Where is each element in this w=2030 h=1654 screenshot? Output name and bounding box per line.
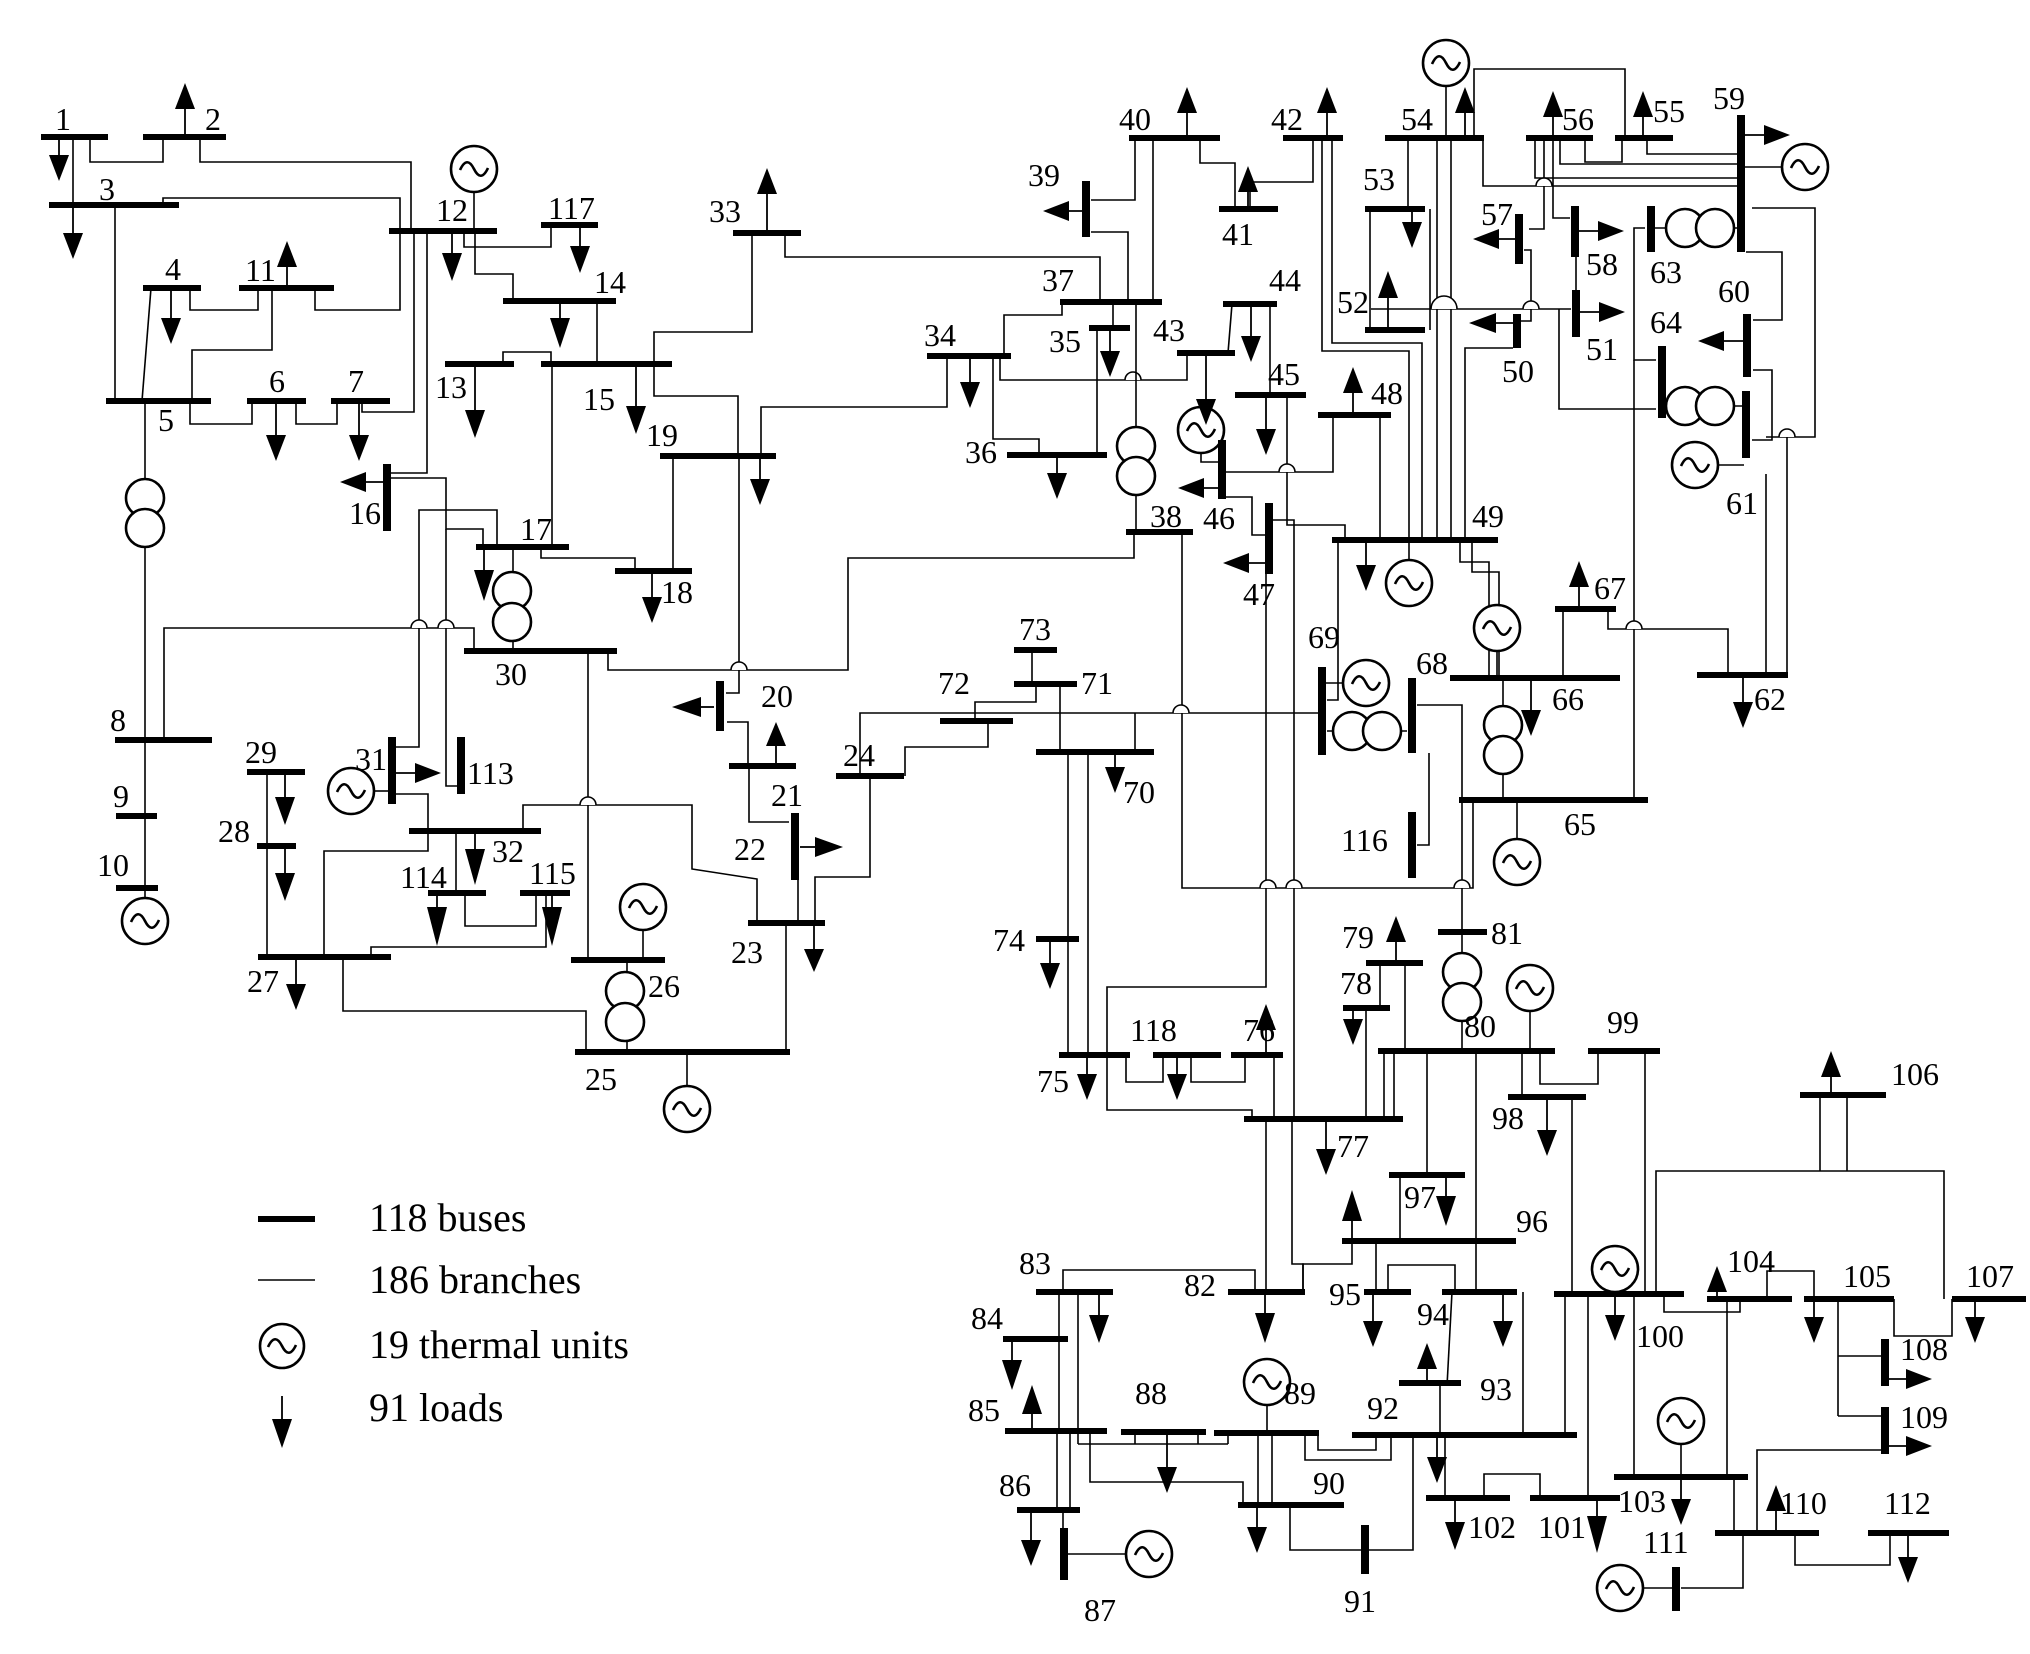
load at bus 117 bbox=[570, 225, 590, 273]
load at bus 45 bbox=[1256, 395, 1276, 455]
svg-text:77: 77 bbox=[1337, 1128, 1369, 1164]
bus 8 bbox=[115, 737, 212, 743]
wire 7-12 bbox=[362, 232, 414, 412]
wire 27-115 bbox=[371, 893, 546, 957]
bus 13 bbox=[445, 361, 514, 367]
wire 59-61 bbox=[1752, 208, 1815, 437]
bus 36 bbox=[1007, 452, 1107, 458]
bus 111 bbox=[1672, 1567, 1680, 1611]
bus 22 bbox=[791, 813, 799, 880]
bus 47 bbox=[1265, 503, 1273, 574]
load at bus 35 bbox=[1100, 328, 1120, 377]
wire hop at 739,670 bbox=[731, 662, 747, 670]
transformer 5-8 bbox=[126, 401, 164, 740]
load at bus 84 bbox=[1002, 1339, 1022, 1390]
svg-text:100: 100 bbox=[1636, 1318, 1684, 1354]
wire hop at 1634,629 bbox=[1626, 621, 1642, 629]
svg-text:39: 39 bbox=[1028, 157, 1060, 193]
bus 11 bbox=[239, 285, 334, 291]
wire 49-54a bbox=[1436, 141, 1438, 540]
load at bus 36 bbox=[1047, 455, 1067, 499]
load at bus 93 bbox=[1417, 1343, 1437, 1386]
svg-text:50: 50 bbox=[1502, 353, 1534, 389]
bus 57 bbox=[1515, 214, 1523, 264]
load at bus 67 bbox=[1569, 561, 1589, 609]
bus 60 bbox=[1743, 314, 1751, 377]
load at bus 107 bbox=[1965, 1299, 1985, 1343]
svg-text:80: 80 bbox=[1464, 1008, 1496, 1044]
load at bus 6 bbox=[266, 401, 286, 461]
wire hop at 1444,309 bbox=[1431, 296, 1457, 309]
wire 78-79 bbox=[1379, 963, 1381, 1008]
wire 49-54b bbox=[1450, 141, 1452, 540]
wire 17-18 bbox=[541, 547, 635, 571]
wire 82-83 bbox=[1063, 1270, 1255, 1292]
wire 70t bbox=[1134, 713, 1136, 752]
bus 43 bbox=[1177, 350, 1235, 356]
bus 74 bbox=[1036, 936, 1079, 942]
wire 5-6 bbox=[190, 401, 252, 424]
wire 80-97 bbox=[1426, 1051, 1428, 1175]
load at bus 66 bbox=[1521, 678, 1541, 736]
svg-text:106: 106 bbox=[1891, 1056, 1939, 1092]
wire 105-107 bbox=[1894, 1299, 1952, 1336]
bus 17 bbox=[476, 544, 569, 550]
svg-text:91 loads: 91 loads bbox=[369, 1385, 503, 1430]
svg-text:114: 114 bbox=[400, 859, 447, 895]
generator at bus 80 bbox=[1507, 965, 1553, 1051]
bus 96 bbox=[1342, 1238, 1516, 1244]
generator at bus 31 bbox=[328, 768, 389, 814]
load at bus 59 bbox=[1741, 125, 1790, 145]
wire 85-88-89 bbox=[1078, 1443, 1228, 1445]
wire 100-106 bbox=[1656, 1171, 1944, 1299]
wire 19-20 bbox=[726, 456, 739, 693]
svg-text:6: 6 bbox=[269, 363, 285, 399]
wire 15-17 bbox=[551, 364, 553, 547]
svg-text:19 thermal units: 19 thermal units bbox=[369, 1322, 629, 1367]
load at bus 14 bbox=[550, 301, 570, 348]
wire 12-14 bbox=[475, 232, 513, 301]
load at bus 103 bbox=[1671, 1477, 1691, 1525]
wire 89-92a bbox=[1305, 1433, 1391, 1460]
svg-text:7: 7 bbox=[348, 363, 364, 399]
bus 98 bbox=[1508, 1094, 1586, 1100]
wire 20-21 bbox=[727, 722, 748, 766]
transformer 65-66 bbox=[1484, 678, 1522, 800]
svg-text:54: 54 bbox=[1401, 101, 1433, 137]
svg-text:70: 70 bbox=[1123, 774, 1155, 810]
svg-text:81: 81 bbox=[1491, 915, 1523, 951]
wire 51-52 bbox=[1371, 308, 1571, 310]
svg-text:107: 107 bbox=[1966, 1258, 2014, 1294]
svg-text:116: 116 bbox=[1341, 822, 1388, 858]
wire 108a bbox=[1838, 1355, 1885, 1357]
wire 85-86a bbox=[1056, 1431, 1058, 1510]
wire 101-102 bbox=[1484, 1474, 1540, 1498]
load at bus 40 bbox=[1177, 87, 1197, 138]
wire 17-113 bbox=[446, 529, 458, 786]
wire 43-44 bbox=[1228, 304, 1232, 353]
svg-text:97: 97 bbox=[1404, 1179, 1436, 1215]
svg-text:29: 29 bbox=[245, 734, 277, 770]
legend generator symbol bbox=[260, 1324, 304, 1368]
load at bus 88 bbox=[1157, 1432, 1177, 1493]
wire 49-66a bbox=[1460, 540, 1489, 678]
bus 117 bbox=[541, 222, 598, 228]
wire 76-77 bbox=[1273, 1055, 1275, 1119]
load at bus 118 bbox=[1167, 1055, 1187, 1100]
bus 23 bbox=[748, 920, 825, 926]
bus 4 bbox=[143, 285, 201, 291]
svg-text:49: 49 bbox=[1472, 498, 1504, 534]
svg-text:59: 59 bbox=[1713, 80, 1745, 116]
bus 89 bbox=[1214, 1430, 1319, 1436]
svg-text:105: 105 bbox=[1843, 1258, 1891, 1294]
bus 24 bbox=[836, 773, 904, 779]
wire 98-100 bbox=[1571, 1097, 1573, 1294]
legend load symbol bbox=[272, 1396, 292, 1448]
legend branch symbol bbox=[258, 1279, 315, 1281]
bus 80 bbox=[1378, 1048, 1555, 1054]
svg-text:18: 18 bbox=[661, 574, 693, 610]
svg-text:65: 65 bbox=[1564, 806, 1596, 842]
wire 4-5 bbox=[142, 288, 151, 401]
wire 96-97 bbox=[1399, 1175, 1401, 1241]
wire 15-19 bbox=[654, 362, 738, 456]
generator at bus 12 bbox=[451, 146, 497, 231]
load at bus 27 bbox=[286, 957, 306, 1010]
wire 52-53a bbox=[1429, 209, 1431, 330]
svg-text:98: 98 bbox=[1492, 1100, 1524, 1136]
wire 109-110 bbox=[1757, 1450, 1885, 1533]
wire 94-96 bbox=[1475, 1241, 1477, 1292]
transformer 17-30 bbox=[493, 547, 531, 649]
wire hop at 1544,186 bbox=[1536, 178, 1552, 186]
svg-text:25: 25 bbox=[585, 1061, 617, 1097]
wire 49-50 bbox=[1465, 348, 1513, 540]
load at bus 96 bbox=[1342, 1190, 1362, 1241]
load at bus 90 bbox=[1247, 1505, 1267, 1553]
wire 89-92b bbox=[1318, 1433, 1376, 1450]
load at bus 33 bbox=[757, 168, 777, 233]
load at bus 101 bbox=[1587, 1498, 1607, 1553]
load at bus 20 bbox=[672, 697, 714, 717]
svg-text:79: 79 bbox=[1342, 919, 1374, 955]
bus 35 bbox=[1089, 325, 1130, 331]
load at bus 55 bbox=[1633, 91, 1653, 138]
wire 30-38 bbox=[608, 532, 1134, 670]
svg-text:118: 118 bbox=[1130, 1012, 1177, 1048]
svg-text:96: 96 bbox=[1516, 1203, 1548, 1239]
bus 38 bbox=[1126, 529, 1193, 535]
svg-text:117: 117 bbox=[548, 190, 595, 226]
svg-text:118 buses: 118 buses bbox=[369, 1195, 526, 1240]
svg-text:112: 112 bbox=[1884, 1485, 1931, 1521]
svg-text:68: 68 bbox=[1416, 645, 1448, 681]
svg-text:4: 4 bbox=[165, 251, 181, 287]
svg-text:30: 30 bbox=[495, 656, 527, 692]
load at bus 42 bbox=[1317, 87, 1337, 138]
wire 35-36 bbox=[1096, 328, 1098, 455]
load at bus 94 bbox=[1493, 1292, 1513, 1347]
wire 55-56 bbox=[1585, 141, 1622, 162]
load at bus 104 bbox=[1707, 1266, 1727, 1299]
svg-text:103: 103 bbox=[1618, 1483, 1666, 1519]
load at bus 102 bbox=[1445, 1498, 1465, 1550]
wire 17-31 bbox=[396, 510, 497, 747]
wire 46-48 bbox=[1226, 415, 1333, 472]
wire 23-24 bbox=[815, 776, 870, 923]
wire 42-49a bbox=[1322, 141, 1409, 540]
wire 110-112 bbox=[1795, 1533, 1890, 1565]
bus 79 bbox=[1366, 960, 1423, 966]
svg-text:67: 67 bbox=[1594, 570, 1626, 606]
load at bus 51 bbox=[1576, 302, 1625, 322]
bus 20 bbox=[716, 681, 724, 731]
bus 62 bbox=[1697, 672, 1788, 678]
svg-text:47: 47 bbox=[1243, 576, 1275, 612]
load at bus 56 bbox=[1543, 91, 1563, 138]
load at bus 95 bbox=[1363, 1292, 1383, 1347]
bus 106 bbox=[1800, 1092, 1886, 1098]
svg-text:14: 14 bbox=[594, 264, 626, 300]
svg-text:108: 108 bbox=[1900, 1331, 1948, 1367]
svg-text:90: 90 bbox=[1313, 1465, 1345, 1501]
svg-text:45: 45 bbox=[1268, 356, 1300, 392]
wire 12-117 bbox=[464, 225, 551, 247]
wire 60-61 bbox=[1752, 370, 1772, 440]
bus 10 bbox=[116, 885, 158, 891]
svg-text:78: 78 bbox=[1340, 965, 1372, 1001]
bus 118 bbox=[1153, 1052, 1221, 1058]
wire 56-57 bbox=[1529, 138, 1544, 229]
wire 75-118 bbox=[1126, 1055, 1163, 1082]
wire 106b bbox=[1846, 1095, 1848, 1171]
load at bus 112 bbox=[1898, 1533, 1918, 1583]
bus 51 bbox=[1572, 290, 1580, 337]
wire 2-12 bbox=[200, 137, 411, 231]
svg-text:28: 28 bbox=[218, 813, 250, 849]
bus 81 bbox=[1438, 929, 1487, 935]
svg-text:82: 82 bbox=[1184, 1267, 1216, 1303]
wire 56-59a bbox=[1560, 138, 1741, 164]
svg-text:11: 11 bbox=[245, 252, 276, 288]
generator at bus 66 bbox=[1474, 605, 1520, 678]
wire 54-59 bbox=[1483, 138, 1741, 186]
bus 68 bbox=[1408, 678, 1416, 753]
bus 55 bbox=[1615, 135, 1673, 141]
bus 37 bbox=[1060, 299, 1162, 305]
svg-text:52: 52 bbox=[1337, 284, 1369, 320]
wire 71-73 bbox=[1031, 650, 1033, 684]
bus 112 bbox=[1868, 1530, 1949, 1536]
wire hop at 1268,888 bbox=[1260, 880, 1276, 888]
wire 60-62 bbox=[1786, 437, 1788, 675]
svg-text:69: 69 bbox=[1308, 619, 1340, 655]
bus 18 bbox=[615, 568, 692, 574]
wire 23-25 bbox=[785, 923, 787, 1052]
bus 3 bbox=[49, 202, 179, 208]
load at bus 105 bbox=[1804, 1299, 1824, 1343]
load at bus 2 bbox=[175, 83, 195, 137]
load at bus 78 bbox=[1343, 1008, 1363, 1045]
generator at bus 69 bbox=[1324, 660, 1389, 706]
load at bus 4 bbox=[161, 288, 181, 344]
bus 15 bbox=[541, 361, 672, 367]
bus 56 bbox=[1526, 135, 1593, 141]
bus 40 bbox=[1129, 135, 1220, 141]
bus 110 bbox=[1715, 1530, 1819, 1536]
load at bus 43 bbox=[1196, 353, 1216, 425]
load at bus 75 bbox=[1077, 1055, 1097, 1100]
bus 46 bbox=[1218, 440, 1226, 499]
svg-text:5: 5 bbox=[158, 402, 174, 438]
bus 48 bbox=[1318, 412, 1391, 418]
svg-text:86: 86 bbox=[999, 1467, 1031, 1503]
bus 53 bbox=[1365, 206, 1425, 212]
wire 83-84-85 bbox=[1058, 1292, 1060, 1431]
wire 85-86b bbox=[1069, 1431, 1071, 1510]
svg-text:83: 83 bbox=[1019, 1245, 1051, 1281]
svg-text:87: 87 bbox=[1084, 1592, 1116, 1628]
load at bus 92 bbox=[1427, 1435, 1447, 1483]
wire 79-80 bbox=[1404, 963, 1406, 1051]
wire 46-47 bbox=[1226, 497, 1265, 535]
load at bus 83 bbox=[1089, 1292, 1109, 1343]
load at bus 106 bbox=[1821, 1051, 1841, 1095]
svg-text:55: 55 bbox=[1653, 93, 1685, 129]
svg-text:27: 27 bbox=[247, 963, 279, 999]
wire 89-90a bbox=[1257, 1433, 1259, 1505]
wire 70-75 bbox=[1087, 752, 1089, 1055]
wire 1-3 bbox=[72, 137, 74, 205]
wire 45-49 bbox=[1287, 395, 1345, 540]
bus 87 bbox=[1060, 1528, 1068, 1580]
generator at bus 89 bbox=[1244, 1359, 1290, 1433]
wire 89-90b bbox=[1271, 1433, 1273, 1505]
svg-text:76: 76 bbox=[1243, 1012, 1275, 1048]
svg-text:20: 20 bbox=[761, 678, 793, 714]
wire hop at 1181,713 bbox=[1173, 705, 1189, 713]
bus 5 bbox=[106, 398, 211, 404]
bus 75 bbox=[1059, 1052, 1130, 1058]
svg-text:66: 66 bbox=[1552, 681, 1584, 717]
bus 52 bbox=[1365, 327, 1425, 333]
load at bus 32 bbox=[465, 831, 485, 885]
generator at bus 111 bbox=[1597, 1565, 1674, 1611]
bus 76 bbox=[1231, 1052, 1283, 1058]
bus 41 bbox=[1219, 206, 1278, 212]
bus 69 bbox=[1318, 667, 1326, 755]
svg-text:94: 94 bbox=[1417, 1296, 1449, 1332]
wire 22-23b bbox=[797, 880, 799, 923]
svg-text:33: 33 bbox=[709, 193, 741, 229]
bus 94 bbox=[1442, 1289, 1517, 1295]
wire 6-7 bbox=[296, 401, 337, 424]
bus 9 bbox=[116, 813, 157, 819]
wire 92-93 bbox=[1439, 1386, 1441, 1435]
bus 99 bbox=[1588, 1048, 1660, 1054]
wire 13-15 bbox=[503, 352, 551, 364]
wire 85-90 bbox=[1090, 1431, 1243, 1505]
load at bus 1 bbox=[49, 137, 69, 181]
svg-text:61: 61 bbox=[1726, 485, 1758, 521]
load at bus 62 bbox=[1733, 675, 1753, 728]
bus 104 bbox=[1707, 1296, 1792, 1302]
svg-text:19: 19 bbox=[646, 417, 678, 453]
load at bus 34 bbox=[960, 356, 980, 408]
bus 88 bbox=[1121, 1429, 1206, 1435]
generator at bus 10 bbox=[122, 888, 168, 944]
wire 90-91-92 bbox=[1290, 1435, 1413, 1550]
svg-text:16: 16 bbox=[349, 495, 381, 531]
wire 34-43 bbox=[1000, 353, 1187, 380]
wire 8-9 bbox=[144, 740, 146, 816]
transformer 68-69 bbox=[1327, 712, 1407, 750]
bus 77 bbox=[1244, 1116, 1403, 1122]
svg-text:10: 10 bbox=[97, 847, 129, 883]
load at bus 48 bbox=[1343, 367, 1363, 415]
wire hop at 588,805 bbox=[580, 797, 596, 805]
load at bus 86 bbox=[1021, 1510, 1041, 1566]
svg-text:41: 41 bbox=[1222, 216, 1254, 252]
generator at bus 54 bbox=[1423, 40, 1469, 138]
load at bus 31 bbox=[396, 763, 441, 783]
svg-text:2: 2 bbox=[205, 101, 221, 137]
wire 11-12 bbox=[315, 231, 400, 310]
generator at bus 59 bbox=[1743, 144, 1828, 190]
svg-text:102: 102 bbox=[1468, 1509, 1516, 1545]
bus 59 bbox=[1737, 115, 1745, 252]
wire 48-49 bbox=[1379, 415, 1381, 540]
load at bus 53 bbox=[1402, 209, 1422, 248]
generator at bus 100 bbox=[1592, 1246, 1638, 1295]
wire hop at 1462,888 bbox=[1454, 880, 1470, 888]
svg-text:38: 38 bbox=[1150, 498, 1182, 534]
svg-text:1: 1 bbox=[55, 101, 71, 137]
wire 47-75 bbox=[1107, 574, 1266, 1055]
load at bus 98 bbox=[1537, 1097, 1557, 1156]
svg-text:56: 56 bbox=[1562, 101, 1594, 137]
load at bus 54 bbox=[1455, 87, 1475, 138]
bus 45 bbox=[1235, 392, 1306, 398]
load at bus 16 bbox=[340, 472, 387, 492]
wire 16-17 bbox=[390, 478, 483, 547]
wire 94-95 bbox=[1388, 1265, 1455, 1292]
svg-text:31: 31 bbox=[355, 741, 387, 777]
wire 28-29 bbox=[266, 772, 268, 846]
load at bus 115 bbox=[542, 893, 562, 946]
bus 102 bbox=[1426, 1495, 1510, 1501]
load at bus 109 bbox=[1885, 1436, 1932, 1456]
generator at bus 25 bbox=[664, 1052, 710, 1132]
svg-text:92: 92 bbox=[1367, 1390, 1399, 1426]
wire 77-82a bbox=[1265, 1119, 1267, 1292]
wire 88b bbox=[1197, 1432, 1199, 1444]
bus 63 bbox=[1647, 206, 1655, 252]
wire 92-94 bbox=[1522, 1292, 1524, 1435]
wire 100-103 bbox=[1633, 1294, 1635, 1477]
bus 73 bbox=[1014, 647, 1057, 653]
svg-text:37: 37 bbox=[1042, 262, 1074, 298]
bus 90 bbox=[1238, 1502, 1344, 1508]
load at bus 47 bbox=[1223, 553, 1269, 573]
bus 115 bbox=[520, 890, 570, 896]
wire hop at 1287,472 bbox=[1279, 464, 1295, 472]
svg-text:22: 22 bbox=[734, 831, 766, 867]
wire hop at 1294,888 bbox=[1286, 880, 1302, 888]
